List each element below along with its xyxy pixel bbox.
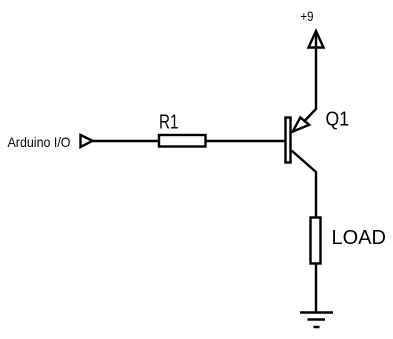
wire: input pin to R1 left terminal <box>93 140 158 142</box>
svg-text:Q1: Q1 <box>326 108 350 130</box>
power +9 symbol (open arrow up) <box>309 31 324 48</box>
wire: LOAD bottom to ground <box>315 264 317 313</box>
wire: +9 to Q1 emitter (vertical then diagonal) <box>305 48 316 121</box>
svg-text:LOAD: LOAD <box>332 227 386 249</box>
resistor LOAD <box>311 218 321 264</box>
ground <box>300 311 333 314</box>
wire: R1 right terminal to Q1 base <box>207 140 286 142</box>
svg-text:Arduino I/O: Arduino I/O <box>8 134 71 150</box>
input pin symbol (Arduino I/O port) <box>81 135 93 147</box>
transistor Q1 collector lead (diagonal from base bar) <box>292 151 317 218</box>
transistor Q1 base bar <box>286 118 291 163</box>
svg-text:R1: R1 <box>159 112 179 134</box>
svg-text:+9: +9 <box>301 8 314 24</box>
transistor Q1 emitter arrow (open arrowhead pointing into base) <box>293 118 310 132</box>
resistor R1 <box>159 135 206 147</box>
